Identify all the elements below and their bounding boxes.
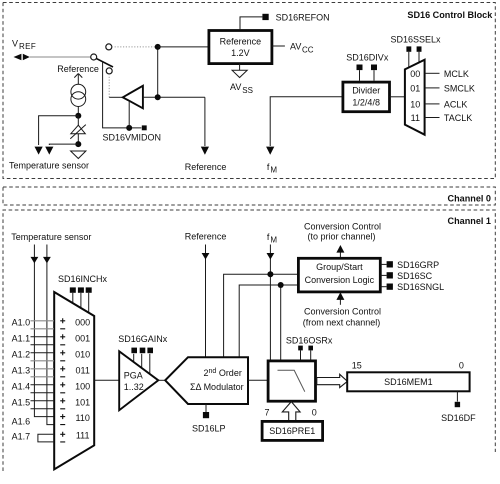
junction dot 2 bbox=[75, 141, 81, 147]
terminal SD16LP bbox=[192, 404, 226, 434]
svg-text:1/2/4/8: 1/2/4/8 bbox=[352, 98, 380, 108]
clock mux U4 bbox=[405, 60, 425, 135]
arrowhead bbox=[43, 257, 51, 264]
wire fM branch to modulator bbox=[224, 274, 271, 357]
switch blade bbox=[96, 58, 113, 67]
arrowhead temp 2 bbox=[45, 147, 53, 155]
switch throw upper bbox=[106, 44, 112, 50]
wire conv signal bbox=[239, 285, 298, 357]
svg-text:Channel 0: Channel 0 bbox=[448, 194, 491, 204]
svg-text:SD16DIVx: SD16DIVx bbox=[346, 53, 389, 63]
group/start box U5 bbox=[298, 258, 380, 292]
wire AVSS bbox=[239, 64, 241, 71]
arrowhead reference bbox=[201, 147, 209, 155]
junction dot bbox=[75, 113, 81, 119]
arrowhead bbox=[31, 257, 39, 264]
wire VREF to switch pole bbox=[30, 56, 91, 58]
terminal SD16SC bbox=[380, 271, 432, 281]
current source I1 bbox=[71, 84, 86, 106]
svg-text:AV: AV bbox=[230, 82, 241, 92]
terminal SD16SSELx bbox=[391, 35, 442, 68]
node A vertical wire bbox=[157, 47, 159, 97]
svg-text:A1.5: A1.5 bbox=[12, 397, 31, 407]
svg-text:MCLK: MCLK bbox=[444, 69, 469, 79]
terminal SD16GRP bbox=[380, 260, 439, 270]
svg-text:10: 10 bbox=[410, 99, 420, 109]
svg-text:SD16 Control Block: SD16 Control Block bbox=[407, 10, 493, 20]
svg-text:SD16LP: SD16LP bbox=[192, 424, 226, 434]
arrow to prior channel bbox=[339, 252, 341, 258]
svg-text:110: 110 bbox=[76, 413, 90, 423]
junction dot A bbox=[155, 44, 161, 50]
svg-text:SD16OSRx: SD16OSRx bbox=[286, 336, 333, 346]
wire to buffer apex bbox=[109, 96, 122, 98]
wire temp sensor ch1 line1 bbox=[34, 245, 54, 417]
svg-text:Divider: Divider bbox=[352, 86, 380, 96]
svg-text:Temperature sensor: Temperature sensor bbox=[11, 232, 91, 242]
terminal SD16INCHx bbox=[58, 274, 108, 313]
svg-text:A1.7: A1.7 bbox=[12, 432, 31, 442]
svg-text:V: V bbox=[12, 39, 18, 49]
svg-text:SD16SNGL: SD16SNGL bbox=[397, 282, 444, 292]
terminal SD16OSRx bbox=[286, 336, 333, 360]
svg-text:101: 101 bbox=[75, 397, 90, 407]
wire divider to mux bbox=[390, 96, 405, 98]
svg-text:0: 0 bbox=[312, 408, 317, 418]
svg-text:SD16SSELx: SD16SSELx bbox=[391, 35, 442, 45]
ground triangle bbox=[71, 151, 86, 159]
mux pin plus/minus glyphs bbox=[60, 318, 65, 442]
svg-text:SD16REFON: SD16REFON bbox=[276, 13, 330, 23]
svg-text:0: 0 bbox=[459, 360, 464, 370]
svg-text:SD16INCHx: SD16INCHx bbox=[58, 274, 108, 284]
diode D1 (temp sensor) bbox=[70, 116, 86, 144]
divider box U3 bbox=[343, 82, 390, 112]
input mux U6 bbox=[54, 292, 94, 469]
svg-text:Conversion Logic: Conversion Logic bbox=[305, 275, 375, 285]
wire fM from divider bbox=[270, 97, 343, 146]
svg-text:SD16PRE1: SD16PRE1 bbox=[269, 426, 315, 436]
wire junction2 left to temp arrow 2 bbox=[49, 143, 78, 146]
svg-text:010: 010 bbox=[75, 349, 90, 359]
svg-text:Temperature sensor: Temperature sensor bbox=[9, 161, 89, 171]
svg-text:A1.3: A1.3 bbox=[12, 365, 31, 375]
block arrow PRE1 to filter bbox=[282, 402, 300, 422]
svg-text:100: 100 bbox=[75, 381, 90, 391]
input A1.4 bbox=[12, 381, 54, 393]
wire node A to reference box bbox=[158, 46, 209, 48]
junction dot B bbox=[155, 94, 161, 100]
ground AVSS triangle bbox=[232, 70, 247, 77]
svg-text:SD16VMIDON: SD16VMIDON bbox=[103, 133, 162, 143]
input A1.7 loop bbox=[12, 432, 54, 442]
Channel 0 frame bbox=[3, 187, 495, 205]
svg-text:000: 000 bbox=[75, 317, 90, 327]
svg-text:1.2V: 1.2V bbox=[231, 48, 250, 58]
svg-text:(from next channel): (from next channel) bbox=[303, 318, 381, 328]
arrow from next channel bbox=[339, 296, 341, 305]
node VREF bbox=[12, 39, 36, 61]
arrowhead bbox=[267, 253, 275, 260]
svg-text:11: 11 bbox=[411, 113, 420, 123]
svg-text:TACLK: TACLK bbox=[444, 113, 472, 123]
svg-text:Channel 1: Channel 1 bbox=[448, 216, 491, 226]
svg-text:(to prior channel): (to prior channel) bbox=[307, 232, 375, 242]
wire PGA to modulator bbox=[158, 379, 166, 381]
svg-text:A1.0: A1.0 bbox=[12, 317, 31, 327]
input A1.1 bbox=[12, 333, 54, 345]
terminal SD16VMIDON bbox=[142, 125, 147, 130]
buffer U1 bbox=[123, 86, 143, 109]
terminal SD16SNGL bbox=[380, 282, 444, 292]
svg-text:Reference: Reference bbox=[220, 37, 262, 47]
svg-text:7: 7 bbox=[265, 408, 270, 418]
terminal SD16REFON bbox=[240, 13, 330, 30]
junction dot conv bbox=[278, 282, 284, 288]
arrow up open bbox=[74, 74, 82, 85]
svg-text:A1.1: A1.1 bbox=[12, 333, 31, 343]
svg-text:SD16MEM1: SD16MEM1 bbox=[384, 377, 433, 387]
memory box SD16MEM1 bbox=[347, 372, 469, 391]
svg-text:01: 01 bbox=[410, 83, 420, 93]
reference box U2 bbox=[209, 31, 272, 64]
wire mux to PGA bbox=[94, 379, 119, 381]
svg-text:ΣΔ Modulator: ΣΔ Modulator bbox=[190, 382, 244, 392]
wire current source to junction bbox=[77, 107, 79, 116]
svg-text:A1.4: A1.4 bbox=[12, 381, 31, 391]
svg-text:A1.2: A1.2 bbox=[12, 349, 31, 359]
svg-text:SD16GAINx: SD16GAINx bbox=[118, 334, 168, 344]
svg-text:Reference: Reference bbox=[57, 64, 99, 74]
svg-text:PGA: PGA bbox=[124, 370, 143, 380]
svg-text:REF: REF bbox=[19, 42, 36, 51]
mux output stubs bbox=[425, 73, 440, 117]
SD16 Control Block frame bbox=[3, 3, 495, 179]
clock labels bbox=[444, 69, 475, 123]
svg-text:M: M bbox=[270, 165, 277, 174]
svg-text:Reference: Reference bbox=[185, 232, 227, 242]
wire fM to conversion logic bbox=[270, 273, 298, 275]
terminal SD16DF bbox=[441, 391, 476, 423]
svg-text:SS: SS bbox=[242, 86, 253, 95]
svg-text:1..32: 1..32 bbox=[124, 382, 144, 392]
filter box U8 bbox=[268, 361, 315, 401]
mux code labels bbox=[410, 69, 420, 123]
wire reference down arrow bbox=[204, 97, 206, 146]
wire junction left to temp arrow bbox=[39, 116, 79, 145]
wire temp sensor ch1 line2 bbox=[47, 245, 54, 425]
wire throw upper to node A (dotted) bbox=[112, 46, 155, 48]
preload box SD16PRE1 bbox=[262, 421, 323, 440]
svg-text:A1.6: A1.6 bbox=[12, 416, 31, 426]
wire conv signal to filter bbox=[280, 285, 282, 361]
svg-text:011: 011 bbox=[76, 365, 90, 375]
arrowhead bbox=[202, 253, 210, 260]
svg-text:Group/Start: Group/Start bbox=[316, 262, 363, 272]
terminal SD16DIVx bbox=[346, 53, 389, 81]
svg-text:SMCLK: SMCLK bbox=[444, 83, 475, 93]
svg-text:15: 15 bbox=[352, 360, 362, 370]
svg-text:111: 111 bbox=[76, 431, 90, 441]
svg-text:Conversion Control: Conversion Control bbox=[304, 222, 381, 232]
wire modulator to filter bbox=[248, 379, 268, 381]
wire buffer bottom to VMID bbox=[128, 101, 130, 128]
PGA A1 bbox=[119, 351, 158, 410]
wire VMID tap bbox=[103, 62, 142, 128]
svg-text:00: 00 bbox=[410, 69, 420, 79]
svg-text:CC: CC bbox=[302, 45, 314, 54]
svg-text:Conversion Control: Conversion Control bbox=[304, 307, 381, 317]
input A1.5 bbox=[12, 397, 54, 409]
svg-text:ACLK: ACLK bbox=[444, 99, 468, 109]
svg-text:SD16SC: SD16SC bbox=[397, 271, 433, 281]
switch throw lower bbox=[106, 68, 112, 74]
svg-text:SD16DF: SD16DF bbox=[441, 413, 476, 423]
svg-text:AV: AV bbox=[290, 42, 301, 52]
wire AVCC bbox=[272, 45, 285, 47]
input A1.2 bbox=[12, 349, 54, 361]
wire reference ch1 bbox=[205, 245, 207, 358]
svg-text:SD16GRP: SD16GRP bbox=[397, 260, 439, 270]
Channel 1 frame bbox=[3, 210, 495, 471]
input A1.0 bbox=[12, 317, 54, 329]
input A1.3 bbox=[12, 365, 54, 377]
terminal SD16GAINx bbox=[118, 334, 168, 374]
wire buffer output right bbox=[143, 96, 205, 98]
svg-text:Reference: Reference bbox=[185, 162, 227, 172]
junction dot fM bbox=[267, 271, 273, 277]
svg-text:001: 001 bbox=[75, 333, 90, 343]
junction dot VMID bbox=[126, 125, 132, 131]
block arrow filter to MEM bbox=[317, 374, 348, 387]
wire fM ch1 bbox=[269, 245, 271, 361]
wire throw lower to buffer input (dotted) bbox=[108, 74, 110, 97]
modulator U7 bbox=[165, 357, 248, 404]
arrowhead temp 1 bbox=[35, 147, 43, 155]
svg-text:M: M bbox=[270, 235, 277, 244]
mux codes bbox=[75, 317, 90, 440]
switch pole bbox=[91, 54, 97, 60]
arrowhead fM bbox=[266, 147, 274, 155]
